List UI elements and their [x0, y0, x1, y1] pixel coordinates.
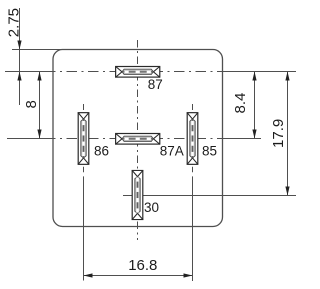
svg-text:2.75: 2.75 [5, 8, 22, 37]
dimension 8 (pin 87 row to pin 86 row) [37, 72, 41, 139]
svg-text:16.8: 16.8 [128, 257, 157, 274]
dimension 17.9 (pin 87 row to pin 30 row) [285, 72, 289, 196]
centerline stub below pin 85 [192, 167, 194, 173]
dimension 8.4 (pin 87 row to pin 85 row) [252, 72, 256, 139]
svg-text:87A: 87A [160, 144, 184, 159]
horizontal centerline row pins 86 / 87A / 85 [7, 138, 261, 140]
svg-text:87: 87 [148, 77, 163, 92]
pin 30 (bottom vertical blade) [132, 171, 143, 220]
vertical centerline through pins 87 / 87A / 30 [137, 40, 139, 240]
svg-text:17.9: 17.9 [270, 119, 287, 148]
dimension 2.75 (body top edge to pin 87 row) [17, 8, 21, 105]
dimension 16.8 (pin 86 column to pin 85 column) [84, 176, 193, 281]
svg-text:8: 8 [23, 100, 40, 108]
centerline stub below pin 86 [83, 167, 85, 173]
centerline stub above pin 85 [192, 104, 194, 110]
svg-text:85: 85 [202, 144, 217, 159]
svg-text:8.4: 8.4 [232, 93, 249, 114]
horizontal line row pin 30 [123, 195, 296, 197]
pin 87 (top horizontal blade) [116, 67, 160, 78]
pin 86 (left vertical blade) [78, 113, 89, 165]
relay body outline [53, 50, 223, 227]
svg-text:30: 30 [144, 200, 159, 215]
pin 85 (right vertical blade) [187, 113, 198, 165]
svg-text:86: 86 [94, 144, 109, 159]
centerline stub above pin 86 [83, 104, 85, 110]
extension line of body top edge [12, 49, 70, 51]
pin 87A (middle horizontal blade) [116, 134, 160, 145]
horizontal centerline row pin 87 [5, 71, 296, 73]
